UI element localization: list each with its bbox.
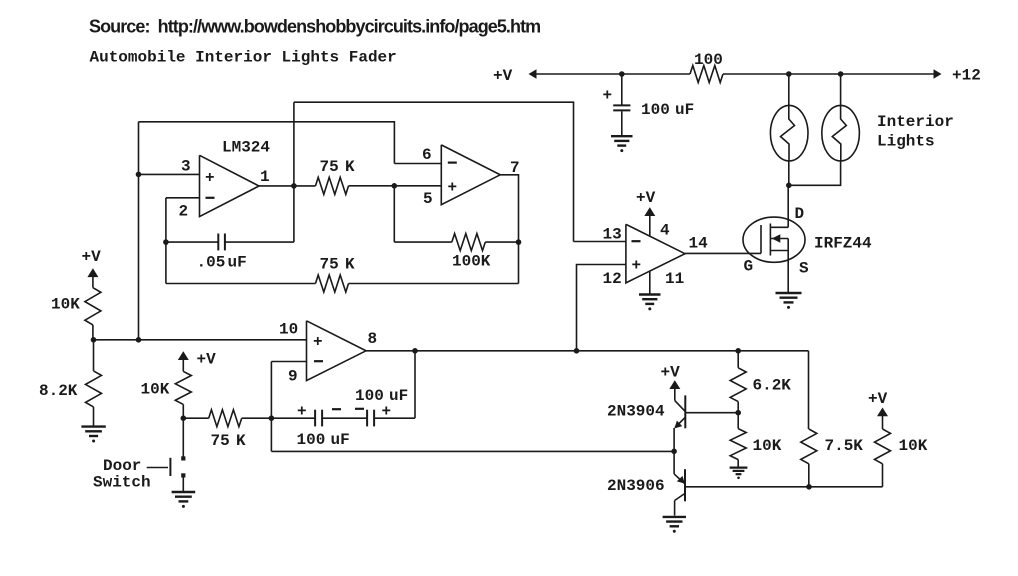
left +V arrowhead [87,268,98,277]
wire pin9 vertical [270,362,272,452]
op-amp U1C triangle [307,321,367,381]
svg-text:Lights: Lights [877,133,935,151]
svg-text:75: 75 [320,158,339,176]
resistor 7.5K [801,429,817,464]
pin label 13 [603,226,622,244]
node pin8 junction [412,348,418,354]
Q1 emitter arrowhead [674,421,682,429]
node 7.5K bottom junction [806,484,812,490]
wire rail left segment [536,73,691,75]
svg-text:uF: uF [389,387,408,405]
wire 8.2K to ground [93,407,95,426]
wire right 10K bottom lead [882,464,884,487]
capacitor .05uF plates [218,234,225,251]
svg-text:+: + [205,169,215,187]
resistor 75K (coupling) [316,177,349,194]
door branch +V arrowhead [178,351,189,360]
resistor 8.2K [86,371,102,407]
label 100 uF (lower) [297,431,350,449]
label 2N3904 [607,403,665,421]
svg-text:100: 100 [694,51,723,69]
transistor Q1 emitter diagonal [675,417,685,427]
svg-text:Source: http://www.bowdenshob: Source: http://www.bowdenshobbycircuits.… [89,16,540,36]
svg-text:Interior: Interior [877,113,954,131]
svg-text:75: 75 [320,256,339,274]
capacitor 100uF A + sign [297,403,307,421]
label Interior Lights [877,113,954,151]
label 10K (door) [141,381,170,399]
wire left vertical [138,122,140,340]
op-amp U1D triangle [626,224,685,283]
node rail-lamp1 junction [786,71,792,77]
resistor 100 (rail) [690,66,723,83]
wire 10K mid to ground [737,460,739,467]
svg-text:2N3904: 2N3904 [607,403,665,421]
op-amp U1D - sign [632,240,641,242]
svg-text:6: 6 [422,146,432,164]
ground (rail capacitor) [611,136,633,152]
op-amp U1A + sign [205,169,215,187]
wire U1D output to gate [685,252,761,254]
wire cap row left [166,241,218,243]
label 75 K (bottom) [320,256,356,274]
op-amp U1A - sign [206,197,215,199]
node rail-capacitor junction [619,71,625,77]
wire door row left [183,417,208,419]
mosfet source stub [770,250,788,252]
wire Q2 collector to ground [674,501,676,516]
node emitters junction [671,449,677,455]
op-amp U1B triangle [441,145,500,205]
wire between caps [322,417,367,419]
node pin10 row mid [136,337,142,343]
svg-text:Door: Door [103,457,141,475]
node cap row left junction [163,239,169,245]
node 100K junction [516,239,522,245]
mosfet gate bar [760,225,762,253]
lamp 1 filament [781,106,795,161]
wire Q2 base row [685,486,883,488]
label 100 uF (upper) [355,387,408,405]
node pin10 row left [91,337,97,343]
label 100K [452,253,491,271]
resistor 10K (middle) [730,429,746,460]
svg-text:10K: 10K [51,296,80,314]
wire U1D ground lead [649,271,651,293]
node row junction x575 [574,348,580,354]
pin label 12 [603,270,622,288]
wire pin9 input [271,361,306,363]
pin label 2 [179,203,189,221]
pin label 14 [689,235,709,253]
svg-text:2: 2 [179,203,189,221]
mosfet body arrowhead [772,234,781,242]
svg-text:K: K [345,158,355,176]
pin label 3 [181,158,191,176]
wire capacitor C1 to ground [621,111,623,135]
svg-text:2N3906: 2N3906 [607,477,665,495]
capacitor 100uF B + sign [382,403,392,421]
wire 7.5K bottom lead [808,464,810,487]
svg-text:4: 4 [660,222,670,240]
svg-text:100: 100 [297,431,326,449]
resistor 75K (door row) [209,410,242,427]
wire pin13 input [574,241,626,243]
node 6.2K top junction [735,348,741,354]
wire pin10 row [94,339,307,341]
label .05 uF [197,254,247,272]
wire row to 7.5K [808,351,810,429]
wire 6.2K top lead [737,351,739,368]
lamp 1 (interior light) envelope [770,105,808,161]
resistor 10K (right) [875,429,891,464]
wire pin2 vertical [165,198,167,284]
svg-text:+12: +12 [952,67,981,85]
svg-text:+: + [313,333,323,351]
wire 100K row left [394,241,452,243]
resistor 100K [452,234,486,251]
svg-text:+V: +V [197,351,217,369]
svg-text:75: 75 [211,432,230,450]
op-amp U1A triangle [200,155,260,216]
label 10K (right) [899,437,928,455]
wire rail to capacitor C1 [621,74,623,105]
svg-text:9: 9 [288,368,298,386]
+V label (door branch) [197,351,217,369]
resistor 6.2K [730,368,746,402]
node 6.2K-10K junction [735,410,741,416]
ground (8.2K) [81,427,105,443]
ground (U1D pin 11) [639,295,661,311]
wire 6.2K bottom lead [737,402,739,413]
svg-text:6.2K: 6.2K [753,377,792,395]
label 6.2K [753,377,792,395]
wire pin2 input [166,197,200,199]
title text [90,49,397,67]
op-amp U1D + sign [632,257,642,275]
capacitor 100uF (rail) plates [613,105,630,110]
wire Q2 emitter lead [673,451,675,474]
wire Q1 emitter lead [673,428,675,451]
wire 10K mid top lead [737,413,739,429]
pin label 1 [260,168,270,186]
+V label (rail left) [493,67,513,85]
svg-text:+V: +V [493,67,513,85]
+V label (right) [868,390,888,408]
label IRFZ44 [814,235,872,253]
door switch actuator dash [147,467,168,469]
wire pin6 input [394,163,441,165]
ground (10K middle) [730,468,748,480]
label 100 uF (rail cap) [641,101,694,119]
node rail-lamp2 junction [838,71,844,77]
svg-text:5: 5 [423,190,433,208]
label 75 K (door row) [211,432,247,450]
wire lamps node to drain [787,185,789,227]
rail right arrowhead to +12 [934,69,942,79]
wire cap row right [225,241,294,243]
wire pin5 junction down [393,186,395,242]
capacitor 100uF B - sign [355,408,364,410]
wire caps riser up [414,351,416,418]
wire op2 output [500,175,518,284]
wire 10K to node [92,325,94,340]
label 8.2K [39,382,78,400]
wire op1 output [259,185,316,187]
svg-text:+V: +V [661,364,681,382]
pin label 6 [422,146,432,164]
svg-text:Automobile Interior Lights Fad: Automobile Interior Lights Fader [90,49,397,67]
svg-text:+: + [297,403,307,421]
svg-text:G: G [744,258,754,276]
wire 100K row right [485,241,518,243]
resistor 75K (feedback) [316,275,349,292]
label 75 K (top) [320,158,356,176]
transistor Q2 base bar [684,469,686,501]
wire left +V lead [92,277,94,288]
pin label 10 [279,321,298,339]
wire rail to lamp1 [788,74,790,106]
wire U1D +V [649,216,651,237]
+12 label [952,67,981,85]
door switch bottom contact [181,473,185,477]
transistor Q2 collector diagonal [675,493,685,500]
node pin3 junction [136,172,142,178]
resistor 10K (left top) [85,288,101,325]
label D [795,205,805,223]
wire bottom long row [271,450,674,452]
wire op4 output row [366,350,809,352]
svg-text:10K: 10K [899,437,928,455]
svg-text:IRFZ44: IRFZ44 [814,235,872,253]
wire caps to output riser [374,417,415,419]
svg-text:uF: uF [331,431,350,449]
op-amp U1B - sign [448,162,457,164]
wire 2N3904 collector lead [674,389,676,401]
pin label 4 [660,222,670,240]
label G [744,258,754,276]
wire rail to lamp2 [840,74,842,106]
mosfet body arrow stub [770,238,788,240]
svg-text:100: 100 [641,101,670,119]
label Door [103,457,141,475]
+V label (left) [82,248,102,266]
wire bottom row left [166,283,316,285]
pin label 9 [288,368,298,386]
label 10K (left) [51,296,80,314]
pin label 7 [510,159,520,177]
svg-text:+: + [632,257,642,275]
wire node to 8.2K [93,340,95,371]
op-amp U1C - sign [314,360,323,362]
svg-text:10: 10 [279,321,298,339]
source url text [89,16,540,36]
right +V arrowhead [877,408,888,417]
node op1 output junction [291,183,297,189]
lamp 2 (interior light) envelope [822,105,860,161]
svg-text:K: K [345,256,355,274]
wire pin12 input [577,265,626,351]
wire bottom row right [349,283,519,285]
svg-text:+V: +V [636,189,656,207]
op-amp U1B + sign [448,179,458,197]
wire Q1 base row [685,412,738,414]
wire pin3 input [139,173,200,175]
node lamps junction [786,183,792,189]
wire door row right [242,417,316,419]
label Switch [93,474,151,492]
svg-text:8.2K: 8.2K [39,382,78,400]
pin label 11 [665,270,684,288]
rail left arrowhead [529,69,537,79]
label LM324 [222,139,270,157]
lamp 2 filament [832,106,846,161]
wire vertical output-to-loop [293,102,295,242]
wire lamp2 bottom to node [789,161,841,186]
ground (door switch) [172,492,196,508]
capacitor 100uF B plates [367,410,374,427]
node pin5 junction [392,183,398,189]
svg-text:8: 8 [368,330,378,348]
+V label (U1D) [636,189,656,207]
svg-text:1: 1 [260,168,270,186]
svg-text:Switch: Switch [93,474,151,492]
svg-text:100: 100 [355,387,384,405]
svg-text:3: 3 [181,158,191,176]
transistor Q1 2N3904 collector diagonal [675,401,686,412]
pin label 8 [368,330,378,348]
resistor 10K (door) [175,371,191,404]
capacitor 100uF A plates [315,410,322,427]
svg-text:12: 12 [603,270,622,288]
label 10K (middle) [753,437,782,455]
svg-text:7.5K: 7.5K [825,437,864,455]
svg-text:10K: 10K [753,437,782,455]
capacitor 100uF A - sign [332,408,341,410]
svg-text:.05: .05 [197,254,226,272]
U1D +V arrowhead [644,207,655,216]
wire switch to ground [182,478,184,492]
svg-text:+: + [448,179,458,197]
wire rail right segment [723,73,934,75]
+V label (2N3904) [661,364,681,382]
wire top loop B [139,122,395,164]
wire 10K door to switch [182,418,184,456]
ground (2N3906) [663,517,686,533]
svg-text:11: 11 [665,270,684,288]
wire door +V lead [182,360,184,372]
label 100 [694,51,723,69]
transistor Q2 2N3906 emitter diagonal [674,474,684,483]
svg-text:100K: 100K [452,253,491,271]
label S [799,260,809,278]
svg-text:+V: +V [82,248,102,266]
node door row junction [181,415,187,421]
svg-text:LM324: LM324 [222,139,270,157]
label 7.5K [825,437,864,455]
wire top loop A [294,102,574,241]
label 2N3906 [607,477,665,495]
op-amp U1C + sign [313,333,323,351]
svg-text:S: S [799,260,809,278]
2N3904 +V arrowhead [669,380,680,389]
wire source internal [787,239,789,293]
transistor Q1 base bar [684,395,686,428]
mosfet Q3 IRFZ44 envelope [743,217,805,262]
capacitor C1 + sign [603,87,613,105]
svg-text:10K: 10K [141,381,170,399]
door switch actuator bar [169,458,171,476]
wire lamp1 bottom to node [788,161,790,186]
svg-text:uF: uF [675,101,694,119]
svg-text:D: D [795,205,805,223]
wire 10K door to node [182,404,184,418]
svg-text:K: K [236,432,246,450]
ground (mosfet source) [776,293,802,309]
mosfet drain stub [770,226,788,228]
svg-text:uF: uF [228,254,247,272]
svg-text:14: 14 [689,235,709,253]
node caps row left junction [269,415,275,421]
wire right +V lead [882,416,884,429]
door switch top contact [181,456,185,460]
svg-text:+V: +V [868,390,888,408]
mosfet channel bar [769,224,771,256]
Q2 emitter arrowhead [677,476,685,484]
pin label 5 [423,190,433,208]
wire 75K to pin5 [349,185,442,187]
svg-text:+: + [603,87,613,105]
